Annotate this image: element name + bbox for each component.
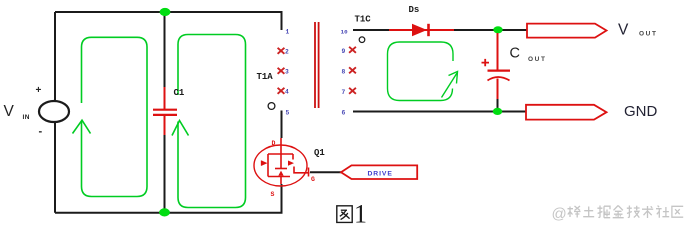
svg-text:7: 7 bbox=[342, 89, 346, 96]
svg-text:G: G bbox=[311, 176, 315, 183]
svg-text:DRIVE: DRIVE bbox=[368, 171, 393, 178]
svg-text:OUT: OUT bbox=[639, 30, 658, 37]
svg-text:T1A: T1A bbox=[257, 72, 274, 82]
svg-text:6: 6 bbox=[342, 110, 346, 117]
svg-text:Q1: Q1 bbox=[314, 148, 325, 158]
svg-text:10: 10 bbox=[341, 29, 348, 36]
svg-text:GND: GND bbox=[624, 103, 658, 120]
svg-text:C1: C1 bbox=[174, 88, 185, 98]
svg-text:9: 9 bbox=[342, 48, 346, 55]
svg-text:+: + bbox=[36, 85, 42, 96]
svg-text:5: 5 bbox=[286, 110, 290, 117]
svg-text:4: 4 bbox=[285, 89, 289, 96]
svg-text:2: 2 bbox=[285, 49, 289, 56]
svg-text:V: V bbox=[618, 22, 629, 39]
svg-text:V: V bbox=[4, 103, 15, 120]
svg-text:1: 1 bbox=[286, 29, 290, 36]
svg-text:Ds: Ds bbox=[409, 5, 420, 15]
svg-text:OUT: OUT bbox=[528, 56, 547, 63]
svg-text:D: D bbox=[272, 140, 276, 147]
svg-text:@: @ bbox=[552, 205, 567, 222]
svg-text:-: - bbox=[39, 126, 43, 138]
svg-text:T1C: T1C bbox=[355, 14, 372, 24]
svg-text:C: C bbox=[510, 46, 520, 62]
svg-text:8: 8 bbox=[342, 68, 346, 75]
svg-text:IN: IN bbox=[23, 114, 31, 121]
svg-text:1: 1 bbox=[354, 200, 367, 229]
svg-text:3: 3 bbox=[285, 69, 289, 76]
svg-text:S: S bbox=[271, 191, 275, 198]
